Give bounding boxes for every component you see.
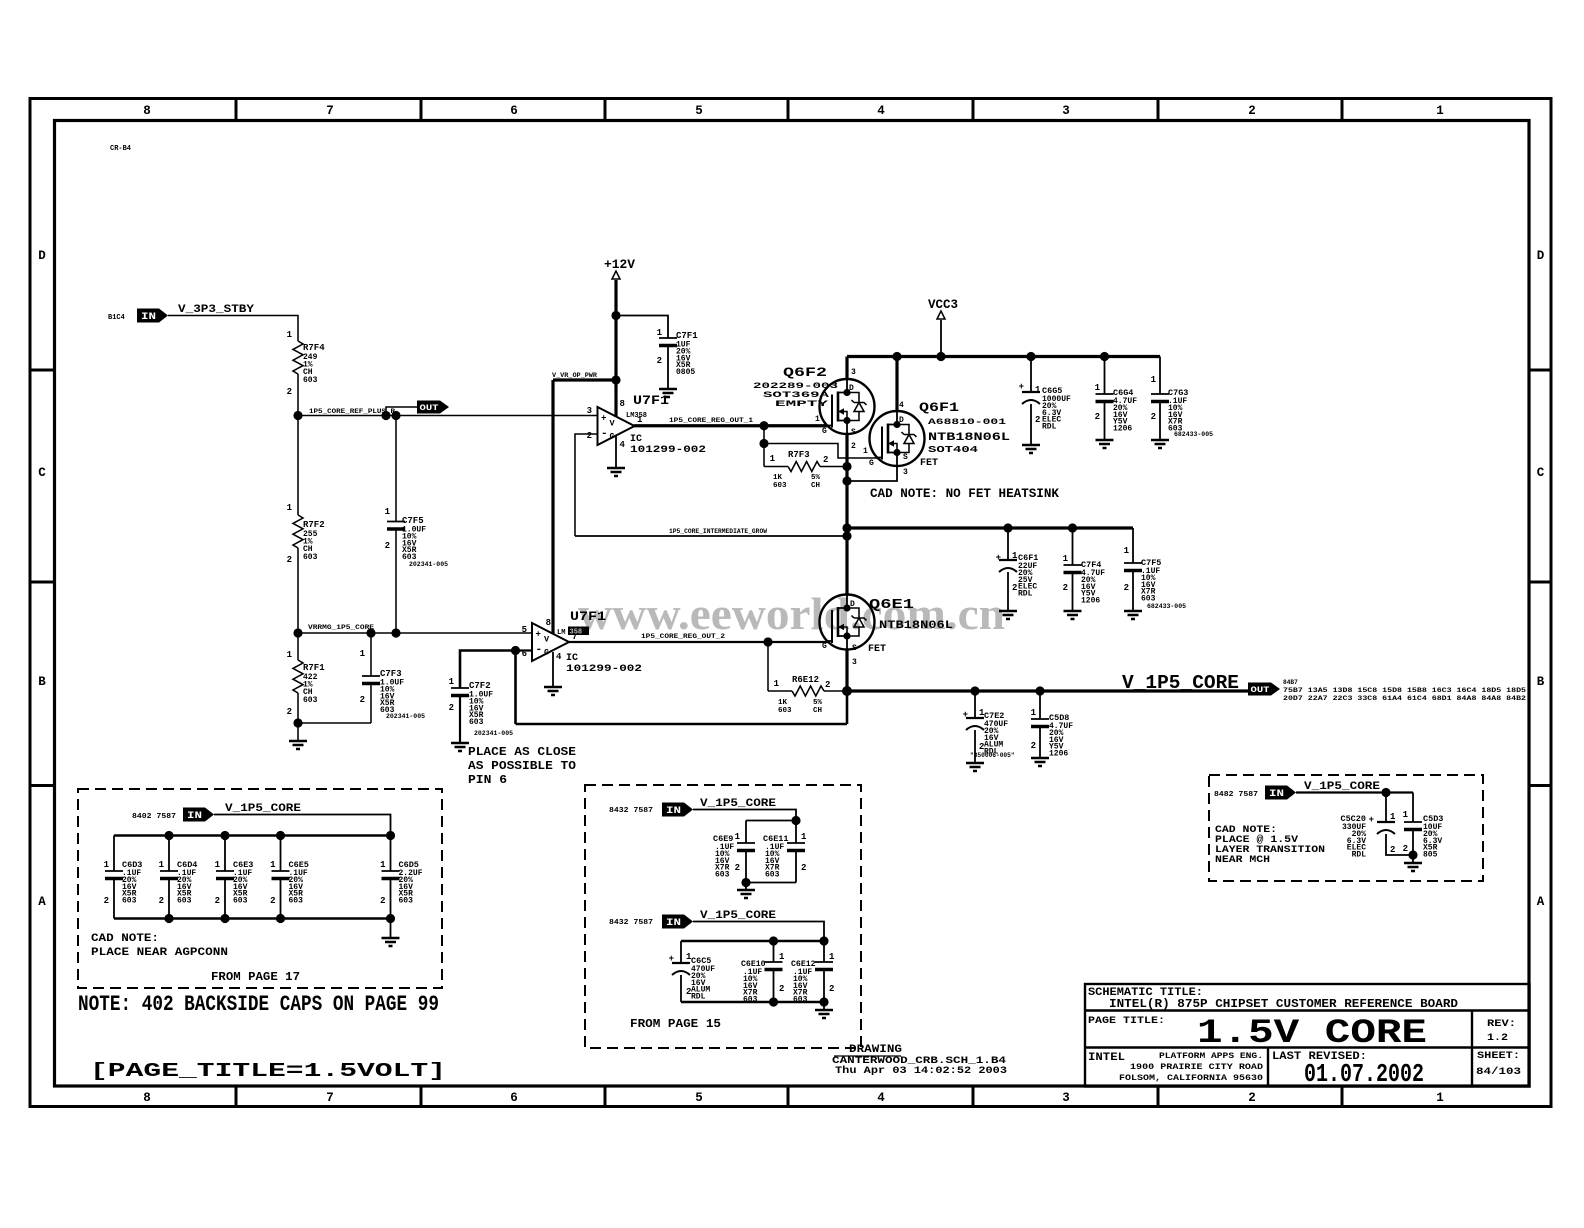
svg-text:2: 2: [779, 984, 784, 994]
svg-text:V_1P5_CORE: V_1P5_CORE: [700, 798, 776, 810]
svg-text:R7F2: R7F2: [303, 520, 325, 530]
svg-text:IN: IN: [141, 312, 156, 323]
capacitor C6E11: [795, 821, 797, 844]
svg-text:682433-005: 682433-005: [1147, 603, 1186, 610]
svg-text:G: G: [869, 459, 874, 468]
svg-text:1K: 1K: [778, 699, 788, 707]
capacitor C7F3: [370, 633, 372, 676]
svg-text:A68810-001: A68810-001: [928, 417, 1006, 427]
svg-text:C: C: [1537, 466, 1545, 480]
svg-text:2: 2: [287, 387, 292, 397]
svg-text:NEAR MCH: NEAR MCH: [1215, 855, 1270, 866]
capacitor C6E9: [745, 821, 747, 844]
svg-text:V: V: [544, 635, 550, 645]
svg-text:2: 2: [270, 896, 275, 906]
svg-text:2: 2: [1248, 1091, 1256, 1105]
svg-text:5: 5: [695, 104, 703, 118]
svg-text:1: 1: [159, 860, 165, 870]
svg-text:1: 1: [270, 860, 276, 870]
ground below C7G3: [1151, 440, 1169, 448]
svg-text:3: 3: [903, 468, 908, 477]
resistor R6E12: [768, 642, 792, 691]
capacitor C6D3: [113, 836, 115, 872]
svg-text:2: 2: [1124, 583, 1129, 593]
svg-text:5%: 5%: [811, 474, 821, 482]
svg-text:Q6F1: Q6F1: [919, 400, 959, 415]
ground below C5D3: [1412, 855, 1414, 863]
svg-text:1: 1: [735, 832, 741, 842]
svg-text:1: 1: [1436, 104, 1444, 118]
svg-text:PIN 6: PIN 6: [468, 773, 507, 787]
resistor R7F3: [764, 444, 788, 467]
svg-text:CAD NOTE: NO FET HEATSINK: CAD NOTE: NO FET HEATSINK: [870, 486, 1059, 501]
ground below C6G5: [1022, 445, 1040, 453]
svg-text:REV:: REV:: [1487, 1019, 1516, 1030]
svg-text:B: B: [38, 675, 46, 689]
svg-text:1: 1: [815, 415, 820, 424]
svg-text:4: 4: [556, 652, 562, 662]
svg-text:2: 2: [823, 455, 828, 465]
input flag IN V_1P5_CORE box1: [183, 808, 214, 822]
capacitor C7G3: [1159, 357, 1161, 395]
svg-text:8482 7587: 8482 7587: [1214, 791, 1258, 799]
wire U7F1b pin 6 input: [516, 649, 533, 651]
svg-text:603: 603: [233, 897, 248, 906]
input flag IN V_1P5_CORE box2a: [662, 803, 693, 817]
svg-text:-: -: [536, 644, 543, 656]
svg-text:OUT: OUT: [420, 403, 439, 413]
svg-text:2: 2: [587, 431, 592, 441]
svg-text:G: G: [610, 432, 615, 442]
svg-text:1: 1: [287, 330, 293, 340]
ground below C7F2: [451, 743, 469, 751]
ground below U7F1a pin 4: [615, 436, 617, 468]
output flag OUT V_1P5_CORE: [1248, 683, 1280, 696]
wire top bus box2a: [746, 820, 796, 822]
svg-text:6: 6: [510, 104, 518, 118]
svg-text:+: +: [996, 553, 1001, 563]
svg-text:LM358: LM358: [626, 412, 647, 420]
svg-text:75B7 13A5 13D8 15C8 15D8 15B8: 75B7 13A5 13D8 15C8 15D8 15B8 16C3 16C4 …: [1283, 687, 1526, 694]
svg-text:R7F3: R7F3: [788, 450, 810, 460]
svg-text:1: 1: [829, 952, 835, 962]
svg-text:603: 603: [715, 871, 730, 880]
svg-text:SHEET:: SHEET:: [1477, 1051, 1520, 1062]
svg-text:IN: IN: [666, 918, 681, 929]
svg-text:603: 603: [303, 553, 318, 562]
svg-text:2: 2: [449, 703, 454, 713]
svg-text:PAGE TITLE:: PAGE TITLE:: [1088, 1016, 1165, 1027]
op-amp U7F1 section A: [598, 407, 635, 445]
svg-text:PLATFORM APPS ENG.: PLATFORM APPS ENG.: [1159, 1051, 1263, 1061]
svg-text:OUT: OUT: [1251, 685, 1270, 695]
border column ticks bottom: [235, 1087, 238, 1108]
capacitor C6E3: [224, 836, 226, 872]
svg-text:RDL: RDL: [1352, 851, 1367, 860]
svg-text:DRAWING: DRAWING: [849, 1044, 902, 1056]
svg-text:LM: LM: [557, 629, 565, 637]
svg-text:D: D: [38, 249, 46, 263]
svg-text:8402 7587: 8402 7587: [132, 813, 176, 821]
svg-text:D: D: [899, 416, 904, 425]
input flag IN V_1P5_CORE box3: [1265, 786, 1296, 800]
outer border frame: [30, 99, 1551, 1107]
svg-text:1: 1: [1403, 810, 1409, 820]
dashed box AGP caps: [78, 789, 442, 988]
svg-text:101299-002: 101299-002: [630, 445, 706, 456]
wire bottom bus box2a: [746, 882, 796, 884]
svg-text:2: 2: [104, 896, 109, 906]
svg-text:84B7: 84B7: [1283, 679, 1298, 686]
capacitor C7F1: [616, 316, 668, 339]
svg-text:603: 603: [793, 996, 808, 1005]
svg-text:B: B: [1537, 675, 1545, 689]
svg-text:1: 1: [360, 649, 366, 659]
capacitor C6E12: [823, 941, 825, 962]
capacitor C6G5: [1030, 357, 1032, 393]
svg-text:3: 3: [1062, 104, 1070, 118]
svg-text:1: 1: [1035, 385, 1041, 395]
capacitor C7E2: [974, 691, 976, 718]
svg-text:1206: 1206: [1081, 597, 1100, 606]
svg-text:NTB18N06L: NTB18N06L: [928, 432, 1011, 444]
wire VCC3 rail: [847, 355, 1160, 358]
resistor R7F1: [297, 633, 299, 660]
wire VCC3: [940, 320, 942, 357]
capacitor C7F5 (reference divider): [395, 416, 397, 522]
svg-text:NTB18N06L: NTB18N06L: [879, 620, 953, 632]
svg-text:IC: IC: [630, 434, 642, 445]
capacitor C6C5: [680, 941, 682, 963]
svg-text:D: D: [850, 600, 855, 609]
svg-text:2: 2: [1012, 583, 1017, 593]
svg-text:2: 2: [1063, 583, 1068, 593]
svg-text:C7F5: C7F5: [402, 516, 424, 526]
svg-text:603: 603: [122, 897, 137, 906]
svg-text:2: 2: [1095, 412, 1100, 422]
svg-text:SOT404: SOT404: [928, 445, 979, 455]
svg-text:805: 805: [1423, 851, 1438, 860]
svg-text:3: 3: [852, 658, 857, 667]
border row ticks right: [1530, 369, 1552, 372]
svg-text:1: 1: [657, 328, 663, 338]
ground below C6E12: [823, 1002, 825, 1010]
wire bottom bus box2b: [681, 1001, 824, 1003]
svg-text:603: 603: [469, 718, 484, 727]
svg-text:RDL: RDL: [1042, 423, 1057, 432]
svg-text:1.2: 1.2: [1487, 1033, 1508, 1044]
svg-text:CH: CH: [813, 707, 822, 715]
svg-text:EMPTY: EMPTY: [775, 399, 830, 409]
ground below C7F1: [659, 389, 677, 397]
svg-text:2: 2: [851, 442, 856, 451]
transistor Q6F1: [870, 411, 925, 466]
svg-text:FOLSOM, CALIFORNIA 95630: FOLSOM, CALIFORNIA 95630: [1119, 1073, 1263, 1083]
svg-text:101299-002: 101299-002: [566, 664, 642, 675]
svg-text:G: G: [822, 427, 827, 436]
svg-text:202341-005: 202341-005: [386, 713, 425, 720]
transistor Q6E1: [820, 595, 875, 650]
svg-text:8: 8: [143, 104, 151, 118]
transistor Q6F2: [820, 379, 875, 434]
svg-text:U7F1: U7F1: [570, 609, 606, 624]
svg-text:1: 1: [287, 503, 293, 513]
wire V_3P3_STBY: [168, 316, 298, 342]
svg-text:603: 603: [743, 996, 758, 1005]
svg-text:1: 1: [770, 454, 776, 464]
svg-text:NOTE: 402 BACKSIDE CAPS ON PA: NOTE: 402 BACKSIDE CAPS ON PAGE 99: [78, 992, 439, 1017]
svg-text:603: 603: [765, 871, 780, 880]
border row ticks left: [30, 369, 55, 372]
svg-text:1: 1: [104, 860, 110, 870]
svg-text:603: 603: [399, 897, 414, 906]
svg-text:6: 6: [510, 1091, 518, 1105]
ground below C6D5: [390, 919, 392, 939]
op-amp U7F1 section B: [532, 623, 569, 661]
inner border frame: [55, 121, 1530, 1087]
capacitor C6G4: [1104, 357, 1106, 395]
svg-text:2: 2: [829, 984, 834, 994]
svg-text:CAD NOTE:: CAD NOTE:: [91, 933, 159, 945]
svg-text:0805: 0805: [676, 368, 695, 377]
svg-text:2: 2: [1151, 412, 1156, 422]
wire gate jog to Q6F1: [764, 426, 878, 458]
input flag IN V_1P5_CORE box2b: [662, 915, 693, 929]
svg-text:RDL: RDL: [1018, 590, 1033, 599]
dashed box from page 15: [585, 785, 861, 1048]
svg-text:8: 8: [620, 399, 625, 409]
svg-text:FROM PAGE 17: FROM PAGE 17: [211, 971, 300, 984]
svg-text:1: 1: [215, 860, 221, 870]
ground below C7F4: [1064, 611, 1082, 619]
svg-text:4: 4: [620, 440, 626, 450]
svg-text:1206: 1206: [1049, 750, 1068, 759]
svg-text:B1C4: B1C4: [108, 314, 125, 322]
svg-text:G: G: [544, 648, 549, 658]
svg-text:CH: CH: [811, 482, 820, 490]
svg-text:7: 7: [326, 1091, 334, 1105]
ground below U7F1b pin 4: [552, 652, 554, 687]
svg-text:8432 7587: 8432 7587: [609, 919, 653, 927]
svg-text:603: 603: [303, 696, 318, 705]
svg-text:1206: 1206: [1113, 425, 1132, 434]
svg-text:1P5_CORE_INTERMEDIATE_GROW: 1P5_CORE_INTERMEDIATE_GROW: [669, 528, 767, 535]
capacitor C5D3: [1412, 793, 1414, 823]
svg-text:[PAGE_TITLE=1.5VOLT]: [PAGE_TITLE=1.5VOLT]: [90, 1060, 446, 1082]
capacitor C7F4: [1072, 528, 1074, 565]
svg-text:603: 603: [778, 707, 792, 715]
wire Q6E1 source: [845, 650, 848, 691]
svg-text:2: 2: [385, 541, 390, 551]
svg-text:1: 1: [1095, 383, 1101, 393]
svg-text:2: 2: [287, 555, 292, 565]
svg-text:01.07.2002: 01.07.2002: [1304, 1059, 1424, 1089]
capacitor C6E10: [773, 941, 775, 962]
svg-text:1: 1: [801, 832, 807, 842]
svg-text:5: 5: [695, 1091, 703, 1105]
wire V_1P5_CORE rail: [847, 689, 1248, 692]
wire V_1P5_CORE box3: [1296, 791, 1413, 793]
svg-text:G: G: [822, 642, 827, 651]
svg-text:682433-005: 682433-005: [1174, 431, 1213, 438]
wire V_1P5_CORE box1: [214, 815, 391, 836]
wire op-amp pin 2 feedback: [575, 434, 598, 536]
ground below C7E2: [966, 763, 984, 771]
svg-text:202341-005: 202341-005: [474, 730, 513, 737]
svg-text:Thu Apr 03 14:02:52 2003: Thu Apr 03 14:02:52 2003: [835, 1065, 1007, 1077]
wire top bus box1: [114, 834, 391, 836]
svg-text:A: A: [38, 895, 46, 909]
svg-text:2: 2: [159, 896, 164, 906]
svg-text:CR-B4: CR-B4: [110, 145, 131, 153]
svg-text:1K: 1K: [773, 474, 783, 482]
svg-text:1: 1: [1151, 375, 1157, 385]
svg-text:PLACE NEAR AGPCONN: PLACE NEAR AGPCONN: [91, 947, 228, 959]
ground below R7F1: [297, 723, 299, 741]
svg-text:1P5_CORE_REG_OUT_1: 1P5_CORE_REG_OUT_1: [669, 417, 753, 424]
svg-text:Q6F2: Q6F2: [783, 365, 827, 380]
svg-text:+: +: [536, 630, 541, 640]
svg-text:202341-005: 202341-005: [409, 561, 448, 568]
svg-text:RDL: RDL: [691, 993, 706, 1002]
svg-text:IN: IN: [187, 811, 202, 822]
svg-text:2: 2: [1035, 415, 1040, 425]
svg-text:Q6E1: Q6E1: [869, 597, 914, 613]
svg-text:2: 2: [1031, 741, 1036, 751]
svg-text:INTEL(R) 875P CHIPSET CUSTOMER: INTEL(R) 875P CHIPSET CUSTOMER REFERENCE…: [1109, 998, 1458, 1011]
wire Q6F2 drain: [845, 357, 848, 380]
svg-text:+: +: [963, 710, 968, 720]
svg-text:2: 2: [380, 896, 385, 906]
svg-text:4: 4: [877, 1091, 885, 1105]
svg-text:4: 4: [899, 401, 904, 410]
svg-text:1: 1: [774, 679, 780, 689]
capacitor C7F2: [460, 651, 516, 689]
wire feedback to U7F1a pin 2: [575, 535, 847, 537]
title block frame: [1085, 984, 1530, 1087]
svg-text:8: 8: [143, 1091, 151, 1105]
wire V_1P5_CORE box2a: [693, 810, 796, 821]
capacitor C6D5: [390, 836, 392, 872]
wire V_1P5_CORE box2b: [693, 922, 824, 942]
svg-text:358: 358: [570, 629, 583, 637]
svg-text:2: 2: [1403, 844, 1408, 854]
svg-text:1: 1: [1436, 1091, 1444, 1105]
svg-text:-: -: [601, 428, 608, 440]
svg-text:VRRMG_1P5_CORE: VRRMG_1P5_CORE: [308, 624, 374, 631]
svg-text:"350006-005": "350006-005": [970, 752, 1015, 759]
svg-text:20D7 22A7 22C3 33C8 61A4 61C4: 20D7 22A7 22C3 33C8 61A4 61C4 68D1 84A8 …: [1283, 695, 1526, 702]
svg-text:FROM PAGE 15: FROM PAGE 15: [630, 1018, 721, 1031]
dashed box near MCH: [1209, 775, 1483, 881]
svg-text:2: 2: [360, 695, 365, 705]
svg-text:C: C: [38, 466, 46, 480]
svg-text:1: 1: [1390, 812, 1396, 822]
svg-text:2: 2: [287, 707, 292, 717]
svg-text:1: 1: [449, 677, 455, 687]
svg-text:+: +: [669, 954, 674, 964]
svg-text:C7F3: C7F3: [380, 669, 402, 679]
svg-text:7: 7: [326, 104, 334, 118]
svg-text:D: D: [1537, 249, 1545, 263]
svg-text:3: 3: [587, 406, 592, 416]
capacitor C5C20: [1385, 793, 1387, 823]
wire top bus box2b: [681, 940, 824, 942]
svg-text:AS POSSIBLE TO: AS POSSIBLE TO: [468, 759, 576, 773]
wire +12V: [614, 280, 617, 417]
output flag OUT: [417, 401, 449, 414]
capacitor C6D4: [168, 836, 170, 872]
wire V_VR_OP_PWR: [553, 380, 616, 634]
svg-text:IN: IN: [666, 806, 681, 817]
svg-text:V_1P5_CORE: V_1P5_CORE: [1122, 672, 1239, 694]
svg-text:8432 7587: 8432 7587: [609, 807, 653, 815]
svg-text:FET: FET: [920, 458, 938, 469]
svg-text:2: 2: [735, 863, 740, 873]
svg-text:+: +: [1369, 815, 1374, 825]
svg-text:1.5V CORE: 1.5V CORE: [1197, 1015, 1427, 1053]
svg-text:PLACE AS CLOSE: PLACE AS CLOSE: [468, 745, 576, 759]
svg-text:1: 1: [1031, 708, 1037, 718]
svg-text:S: S: [851, 428, 856, 437]
wire stub to OUT flag: [386, 407, 417, 416]
ground below C6E9: [745, 883, 747, 891]
svg-text:V_1P5_CORE: V_1P5_CORE: [700, 910, 776, 922]
border column ticks top: [235, 99, 238, 121]
svg-text:1: 1: [385, 507, 391, 517]
resistor R7F2: [297, 416, 299, 516]
wire 1P5_CORE_INTERMEDIATE rail: [847, 526, 1133, 529]
input flag IN V_3P3_STBY: [137, 309, 168, 323]
svg-text:VCC3: VCC3: [928, 298, 958, 312]
wire 1P5_CORE_REF_PLUS_R: [298, 415, 598, 417]
svg-text:603: 603: [773, 482, 787, 490]
svg-text:1: 1: [380, 860, 386, 870]
svg-text:R7F1: R7F1: [303, 663, 325, 673]
svg-text:R6E12: R6E12: [792, 675, 819, 685]
svg-text:2: 2: [1248, 104, 1256, 118]
svg-text:V_1P5_CORE: V_1P5_CORE: [1304, 781, 1380, 793]
svg-text:1: 1: [779, 952, 785, 962]
svg-text:FET: FET: [868, 644, 886, 655]
svg-text:4: 4: [877, 104, 885, 118]
ground below C6G4: [1096, 440, 1114, 448]
svg-text:A: A: [1537, 895, 1545, 909]
svg-text:IC: IC: [566, 653, 578, 664]
svg-text:3: 3: [851, 368, 856, 377]
svg-text:8: 8: [546, 618, 551, 628]
svg-text:1: 1: [863, 447, 868, 456]
capacitor C5D8: [1039, 691, 1041, 719]
svg-text:2: 2: [825, 680, 830, 690]
wire R7F1/C7F3 common: [298, 722, 371, 724]
svg-text:5%: 5%: [813, 699, 823, 707]
svg-text:2: 2: [801, 863, 806, 873]
svg-text:V: V: [610, 419, 616, 429]
svg-text:603: 603: [303, 376, 318, 385]
svg-text:INTEL: INTEL: [1088, 1052, 1125, 1064]
wire Q6F1 drain: [895, 357, 898, 412]
svg-text:S: S: [903, 453, 908, 462]
ground below C5D8: [1031, 758, 1049, 766]
ground below C6F1: [999, 611, 1017, 619]
wire bottom bus box1: [114, 917, 391, 919]
svg-text:+: +: [601, 414, 606, 424]
svg-text:D: D: [849, 384, 854, 393]
svg-text:2: 2: [1390, 845, 1395, 855]
svg-text:1: 1: [1124, 546, 1130, 556]
resistor R7F4: [293, 341, 303, 374]
